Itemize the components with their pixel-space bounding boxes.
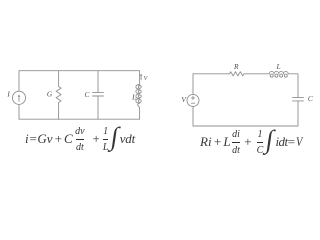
svg-text:V: V	[181, 95, 187, 104]
svg-text:L: L	[276, 62, 281, 71]
svg-text:V: V	[144, 76, 149, 82]
svg-text:C: C	[85, 90, 90, 99]
svg-text:C: C	[308, 94, 313, 103]
svg-text:G: G	[47, 89, 53, 98]
svg-text:L: L	[131, 93, 136, 102]
svg-text:I: I	[6, 90, 10, 99]
svg-text:R: R	[233, 62, 239, 71]
